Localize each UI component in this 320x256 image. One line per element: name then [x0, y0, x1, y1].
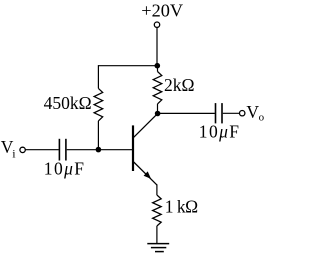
transistor Q1 bar — [132, 125, 134, 171]
svg-text:10μF: 10μF — [44, 158, 86, 178]
junction base node — [96, 147, 102, 153]
ground symbol line 3 — [155, 251, 164, 253]
capacitor C1 left plate — [58, 139, 60, 161]
terminal +20V (open circle) — [154, 22, 159, 27]
svg-text:2kΩ: 2kΩ — [164, 75, 195, 95]
resistor R2 2k zigzag — [153, 72, 162, 104]
junction supply node — [155, 63, 161, 69]
terminal Vo (open circle) — [240, 111, 245, 116]
capacitor C2 left plate — [215, 103, 217, 123]
resistor R1 450k zigzag — [94, 88, 103, 121]
transistor Q1 collector lead — [134, 114, 158, 138]
wire capacitor to base — [67, 149, 133, 151]
transistor Q1 emitter lead — [134, 162, 157, 185]
wire R1 bottom lead — [97, 121, 99, 150]
wire input to capacitor — [25, 149, 58, 151]
wire emitter vertical — [156, 184, 158, 195]
svg-text:1 kΩ: 1 kΩ — [165, 197, 198, 217]
svg-text:+20V: +20V — [141, 1, 183, 21]
ground symbol line 2 — [151, 247, 166, 249]
wire supply horizontal to left branch — [98, 65, 157, 67]
wire R3 to ground — [156, 226, 158, 244]
wire R2 bottom lead — [157, 104, 159, 114]
wire collector to output capacitor — [158, 112, 215, 114]
svg-text:450kΩ: 450kΩ — [44, 93, 92, 113]
capacitor C1 right plate — [65, 139, 67, 161]
wire supply vertical — [156, 28, 158, 66]
capacitor C2 right plate — [221, 103, 223, 123]
ground symbol line 1 — [147, 243, 169, 245]
svg-text:o: o — [259, 112, 265, 124]
wire left branch top lead — [97, 65, 99, 88]
resistor R3 1k zigzag — [153, 195, 162, 226]
terminal Vi (open circle) — [20, 147, 25, 152]
transistor Q1 emitter arrow — [144, 171, 152, 179]
wire 2k top lead — [157, 66, 159, 72]
wire output capacitor to terminal — [223, 112, 240, 114]
svg-text:10μF: 10μF — [199, 121, 241, 141]
junction collector node — [155, 111, 161, 117]
svg-text:V: V — [246, 102, 259, 122]
